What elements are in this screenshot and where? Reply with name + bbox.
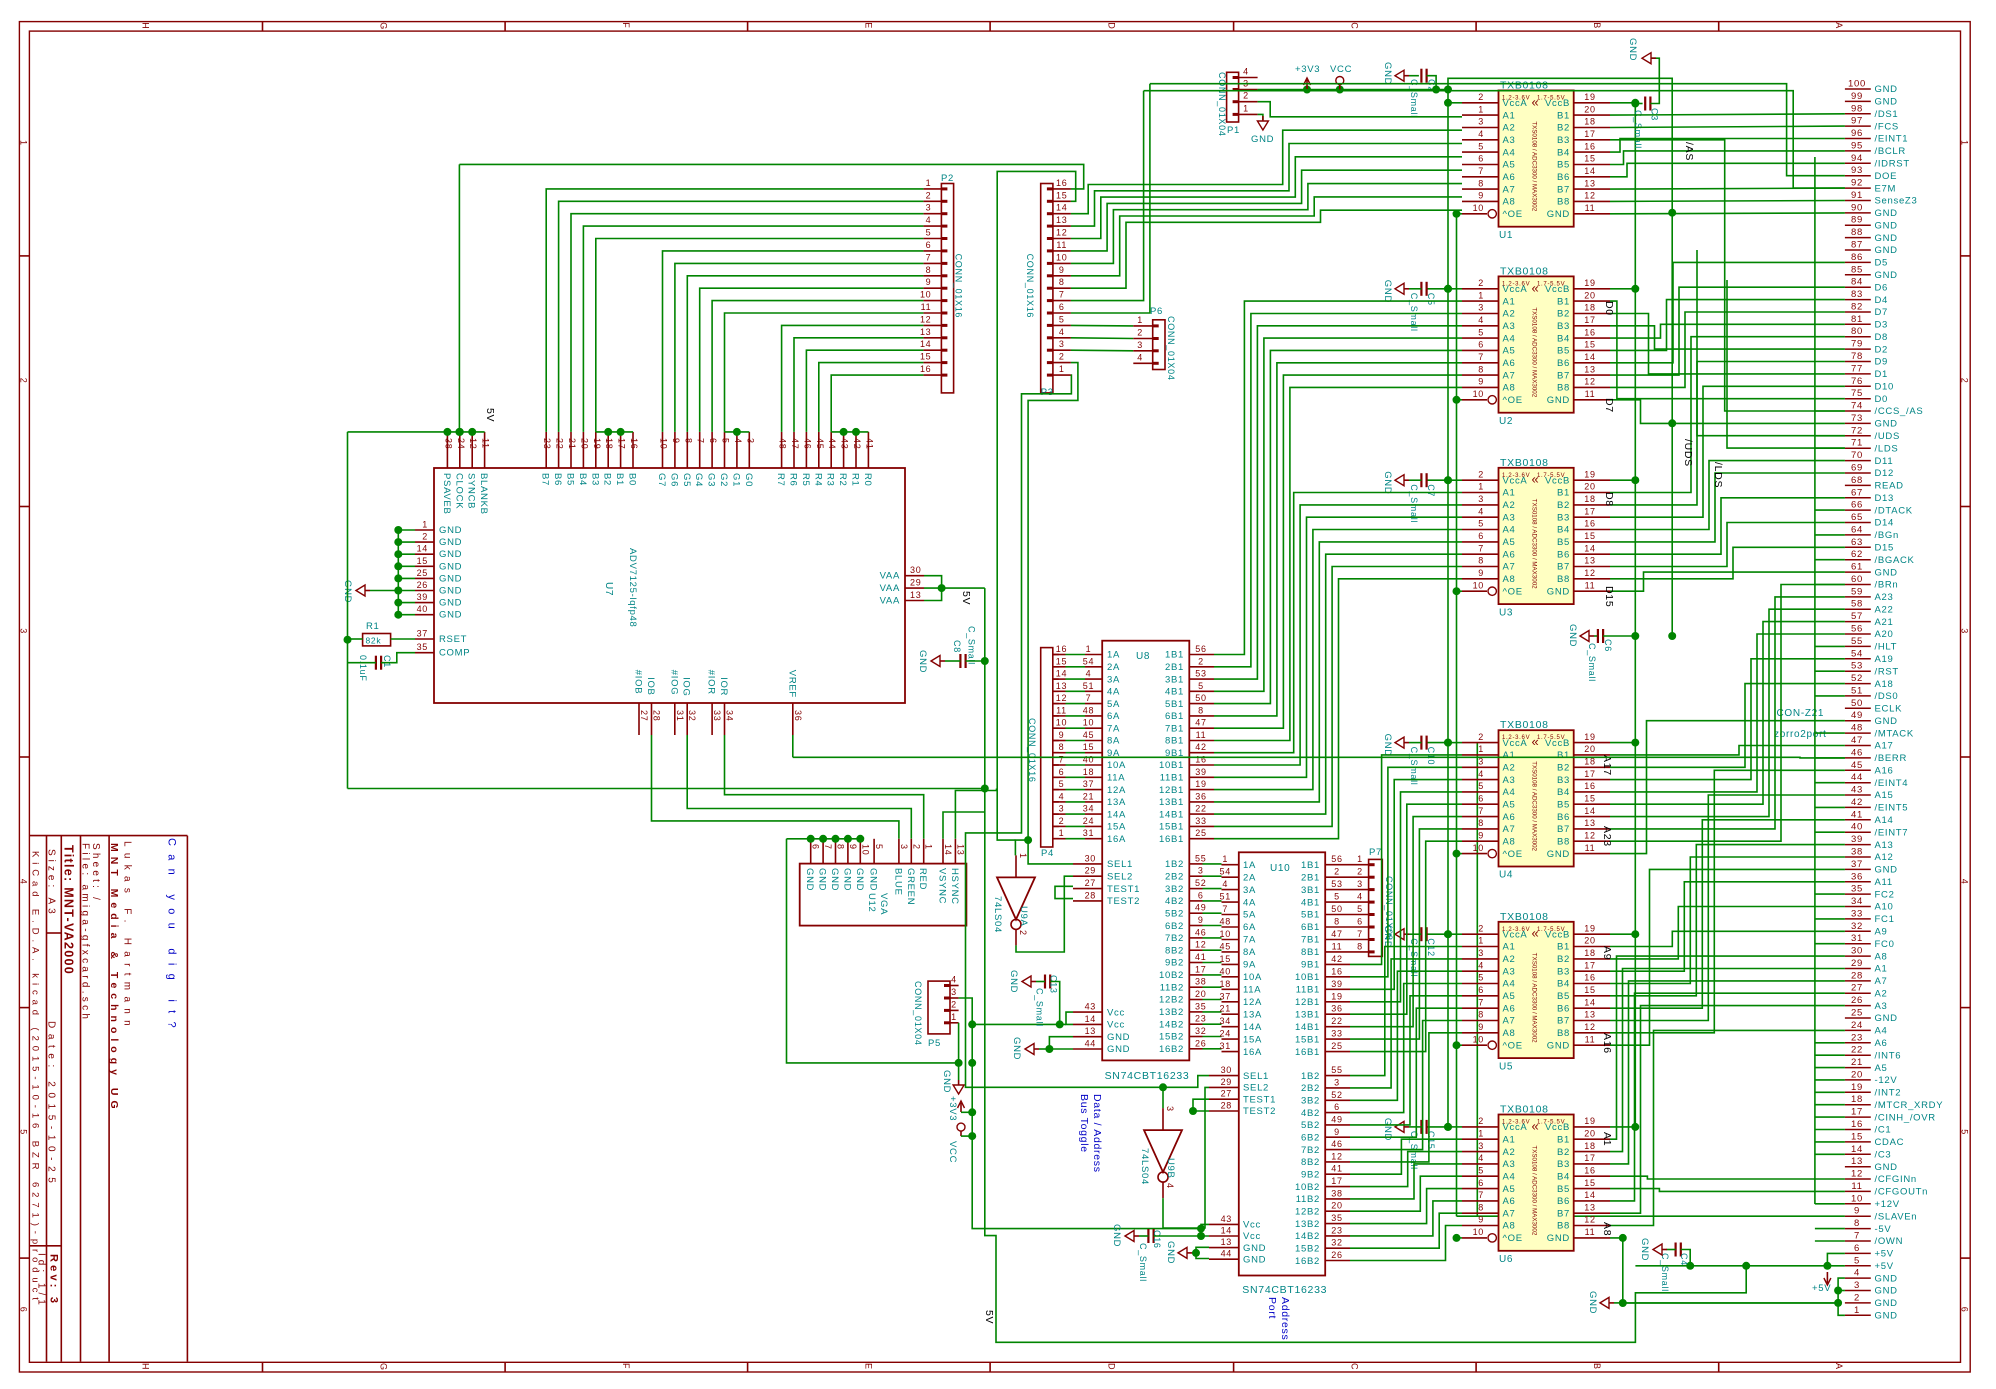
svg-text:3: 3 [1334, 1077, 1340, 1087]
svg-text:GND: GND [1875, 1311, 1898, 1322]
P5 pin 2 [944, 999, 959, 1010]
svg-text:G5: G5 [681, 473, 692, 487]
svg-text:VccA: VccA [1503, 284, 1528, 295]
svg-text:35: 35 [1195, 1001, 1206, 1011]
svg-text:80: 80 [1851, 326, 1863, 337]
U7 pin 40 GND [415, 604, 462, 621]
U5 pin 13 B7 [1557, 1010, 1610, 1027]
svg-text:+3V3: +3V3 [947, 1096, 958, 1121]
U7 pin 29 VAA [880, 578, 924, 595]
svg-text:27: 27 [639, 710, 649, 721]
U7 pin 26 GND [415, 580, 462, 597]
svg-text:11B1: 11B1 [1160, 773, 1184, 784]
wire U7 G2-G0 bridge [725, 428, 750, 436]
label A8 [1601, 1222, 1613, 1236]
svg-text:/IDRST: /IDRST [1875, 159, 1910, 170]
svg-text:A2: A2 [1503, 1147, 1516, 1158]
wire U1 B2 to zorro 97 [1610, 126, 1845, 127]
U1 pin 6 A5 [1462, 154, 1516, 171]
U8 pin 19 12B1 [1159, 779, 1214, 796]
wire P2 pin 1 [546, 189, 923, 432]
svg-text:A11: A11 [1875, 877, 1893, 888]
svg-text:4A: 4A [1243, 897, 1256, 908]
svg-text:^OE: ^OE [1503, 1040, 1523, 1051]
ground GND left of U7 [342, 580, 370, 603]
U10 pin 49 5B2 [1301, 1114, 1350, 1131]
wire P2 pin 11 [725, 313, 924, 432]
IC U7 ADV7125 [434, 468, 905, 703]
U5 pin 18 B2 [1557, 948, 1610, 965]
svg-text:10: 10 [920, 290, 931, 300]
U10 pin 37 12A [1219, 991, 1262, 1008]
svg-text:3: 3 [1960, 628, 1970, 634]
wire E7M long to zorro 92 [1144, 91, 1845, 188]
svg-text:13A: 13A [1107, 797, 1126, 808]
U2 pin 4 A3 [1462, 315, 1516, 332]
svg-text:8: 8 [1478, 1010, 1484, 1020]
U2 pin 14 B6 [1557, 352, 1610, 369]
svg-text:D2: D2 [1875, 344, 1889, 355]
wire U9B output [1163, 1087, 1209, 1228]
U1 pin 3 A2 [1462, 117, 1516, 134]
wire U6 B4 to zorro 12 /CFGINn [1610, 1176, 1845, 1179]
wire U10 15B2 to U6 A7 [1350, 1213, 1462, 1248]
connector P6 CONN_01X04 [1150, 306, 1176, 381]
U3 pin 15 B5 [1557, 531, 1610, 548]
P1 pin 2 [1233, 91, 1258, 102]
U8 pin 44 GND [1073, 1039, 1130, 1056]
wire U4 B3 to zorro 54 A19 [1610, 659, 1845, 780]
svg-text:D4: D4 [1875, 295, 1889, 306]
U4 pin 9 A8 [1462, 830, 1516, 847]
svg-text:VREF: VREF [786, 670, 797, 698]
U2 pin 15 B5 [1557, 340, 1610, 357]
U8 pin 31 16A [1053, 828, 1126, 845]
svg-text:CDAC: CDAC [1875, 1137, 1905, 1148]
wire P3 pin 9 to U1 [1071, 197, 1462, 276]
svg-text:12A: 12A [1107, 785, 1126, 796]
U8 pin 14 Vcc [1073, 1014, 1125, 1031]
svg-text:20: 20 [1195, 989, 1206, 999]
wire U3 B3 to zorro 76 D10 [1610, 386, 1845, 517]
svg-text:59: 59 [1851, 586, 1863, 597]
wire U10 5B2 to U5 A5 [1350, 996, 1462, 1125]
svg-text:55: 55 [1331, 1065, 1342, 1075]
IC U6 TXB0108 [1499, 1104, 1574, 1266]
svg-text:CONN_01X04: CONN_01X04 [1166, 316, 1176, 381]
svg-text:/BGn: /BGn [1875, 530, 1899, 541]
svg-text:Date: 2015-10-25: Date: 2015-10-25 [46, 1021, 57, 1188]
U3 pin 1 A1 [1462, 482, 1516, 499]
svg-text:7: 7 [926, 252, 932, 262]
svg-text:45: 45 [1083, 730, 1094, 740]
svg-text:14B1: 14B1 [1159, 809, 1184, 820]
svg-text:A16: A16 [1875, 766, 1894, 777]
U8 pin 42 9B1 [1165, 742, 1214, 759]
svg-text:11: 11 [1585, 843, 1596, 853]
U8 pin 4 3A [1053, 669, 1120, 686]
svg-text:8: 8 [1334, 917, 1340, 927]
U8 pin 51 4A [1053, 681, 1120, 698]
svg-text:FC0: FC0 [1875, 939, 1895, 950]
svg-text:43: 43 [1851, 785, 1863, 796]
svg-text:/CCS_/AS: /CCS_/AS [1875, 406, 1924, 417]
svg-text:C8: C8 [952, 640, 962, 653]
wire U10 13B2 to U6 A5 [1350, 1189, 1462, 1224]
svg-text:16: 16 [1851, 1119, 1863, 1130]
capacitor C1 0.1uF [358, 655, 392, 682]
U7 pin 10 G7 [656, 432, 669, 487]
svg-text:B3: B3 [1557, 1159, 1570, 1170]
connector CON-Z21 zorro2port [1774, 79, 1943, 1322]
svg-text:Vcc: Vcc [1243, 1231, 1261, 1242]
svg-text:ADV7125-lqfp48: ADV7125-lqfp48 [627, 548, 638, 628]
svg-text:39: 39 [1331, 979, 1342, 989]
U8 pin 53 3B1 [1165, 669, 1214, 686]
svg-text:/DS1: /DS1 [1875, 109, 1899, 120]
U8 pin 24 15A [1053, 816, 1126, 833]
wire P3 pin7 E7M [1071, 91, 1144, 301]
svg-text:13: 13 [910, 590, 921, 600]
wire P2 pin 2 [559, 201, 924, 432]
svg-text:72: 72 [1851, 425, 1863, 436]
svg-text:3: 3 [1478, 494, 1484, 504]
wire U2 B5 to zorro 83 D4 [1610, 300, 1845, 351]
svg-text:TEST2: TEST2 [1243, 1106, 1276, 1117]
U2 pin 19 VccB [1545, 278, 1610, 295]
wire U2 B1 to zorro 75 D0 [1610, 301, 1845, 399]
svg-text:GND: GND [439, 586, 462, 597]
U3 pin 12 B8 [1557, 568, 1610, 585]
svg-text:VccA: VccA [1503, 1122, 1528, 1133]
wire U6 B8 to zorro 24 A4 [1610, 1030, 1845, 1225]
U7 pin 24 CLOCK [453, 432, 466, 509]
svg-text:B1: B1 [614, 473, 625, 486]
wire U5 GND11 to zorro 37 [1610, 869, 1845, 1045]
svg-text:A15: A15 [1875, 790, 1894, 801]
svg-text:4: 4 [1059, 791, 1065, 801]
svg-text:7: 7 [1478, 1190, 1484, 1200]
svg-text:RED: RED [917, 868, 928, 890]
svg-text:8: 8 [683, 438, 693, 444]
svg-text:16: 16 [1331, 966, 1342, 976]
svg-text:GND: GND [1111, 1224, 1122, 1247]
svg-text:A5: A5 [1503, 160, 1516, 171]
svg-text:/UDS: /UDS [1682, 439, 1694, 467]
svg-text:GND: GND [1875, 1162, 1898, 1173]
svg-text:R3: R3 [825, 473, 836, 487]
svg-text:27: 27 [1085, 878, 1096, 888]
svg-text:7: 7 [1854, 1231, 1860, 1242]
svg-text:CLOCK: CLOCK [453, 473, 464, 509]
svg-text:1B2: 1B2 [1165, 859, 1184, 870]
svg-text:1: 1 [1059, 364, 1065, 374]
svg-text:5: 5 [1059, 314, 1065, 324]
wire P3 pin15 toggle net [997, 171, 1075, 840]
svg-text:P7: P7 [1369, 847, 1382, 858]
svg-text:34: 34 [1851, 896, 1863, 907]
svg-text:2B1: 2B1 [1301, 872, 1320, 883]
svg-text:D3: D3 [1875, 320, 1889, 331]
svg-text:30: 30 [1221, 1065, 1232, 1075]
svg-text:15B2: 15B2 [1159, 1032, 1184, 1043]
svg-text:18: 18 [1584, 117, 1595, 127]
svg-text:93: 93 [1851, 165, 1863, 176]
svg-text:17: 17 [617, 438, 627, 449]
svg-text:38: 38 [443, 438, 453, 449]
svg-text:1B2: 1B2 [1301, 1071, 1320, 1082]
U10 pin 36 13B1 [1295, 1004, 1350, 1021]
U7 pin 33 #IOR [706, 670, 723, 735]
svg-text:10: 10 [1473, 203, 1484, 213]
wire U2 B6 to zorro 86 D5 [1610, 262, 1845, 362]
svg-text:4: 4 [1137, 352, 1143, 362]
svg-text:33: 33 [1331, 1029, 1342, 1039]
wire U8 11B1 to U3 A3 [1214, 517, 1462, 777]
svg-text:28: 28 [1085, 890, 1096, 900]
svg-text:10B2: 10B2 [1159, 970, 1184, 981]
svg-text:G2: G2 [718, 473, 729, 487]
U10 pin 40 10A [1219, 966, 1262, 983]
svg-text:17: 17 [1584, 1153, 1595, 1163]
svg-text:C_Small: C_Small [1138, 1243, 1148, 1282]
wire P2 pin 5 [596, 239, 924, 432]
capacitor C12 C_Small [1382, 925, 1452, 977]
svg-text:41: 41 [864, 438, 874, 449]
wire U8 6B1 to U2 A6 [1214, 363, 1462, 716]
wire U4 B4 to zorro 56 A20 [1610, 634, 1845, 792]
wire U5 B4 to zorro 38 A12 [1610, 857, 1845, 984]
svg-text:GND: GND [1547, 1040, 1570, 1051]
U5 pin 2 VccA [1462, 923, 1527, 940]
U10 pin 23 14B2 [1295, 1225, 1350, 1242]
svg-text:48: 48 [1219, 917, 1230, 927]
svg-text:58: 58 [1851, 599, 1863, 610]
svg-text:TXS0108 / ADC3300 / MAX3002: TXS0108 / ADC3300 / MAX3002 [1531, 121, 1538, 211]
svg-text:READ: READ [1875, 481, 1904, 492]
svg-text:GND: GND [1875, 865, 1898, 876]
wire U1 B6 to zorro 94 [1610, 163, 1845, 177]
svg-text:7: 7 [823, 844, 833, 850]
svg-text:B4: B4 [1557, 525, 1570, 536]
label A23 [1601, 826, 1613, 847]
svg-text:A1: A1 [1875, 964, 1888, 975]
svg-text:D6: D6 [1875, 282, 1889, 293]
svg-text:19: 19 [1584, 923, 1595, 933]
svg-text:A2: A2 [1875, 988, 1888, 999]
svg-text:/MTCR_XRDY: /MTCR_XRDY [1875, 1100, 1944, 1111]
wire P2 pin 16 [831, 375, 923, 432]
svg-text:D12: D12 [1875, 468, 1895, 479]
svg-text:A7: A7 [1503, 184, 1516, 195]
U10 pin 9 6B2 [1301, 1127, 1350, 1144]
svg-text:43: 43 [1221, 1214, 1232, 1224]
svg-text:11A: 11A [1107, 773, 1125, 784]
U6 pin 12 B8 [1557, 1215, 1610, 1232]
svg-text:GND: GND [868, 868, 879, 891]
svg-text:A7: A7 [1503, 824, 1516, 835]
ground GND C16 left [1111, 1224, 1139, 1247]
svg-text:GREEN: GREEN [905, 868, 916, 905]
wire U8 8B1 to U2 A8 [1214, 387, 1462, 740]
svg-text:13B2: 13B2 [1295, 1219, 1320, 1230]
svg-text:54: 54 [1083, 656, 1094, 666]
svg-text:15: 15 [1056, 190, 1067, 200]
svg-text:1: 1 [1357, 854, 1363, 864]
wire P3 pin 10 to U1 [1071, 184, 1462, 264]
svg-text:5: 5 [1478, 1165, 1484, 1175]
svg-text:A3: A3 [1875, 1001, 1888, 1012]
svg-text:D0: D0 [1603, 301, 1615, 316]
svg-text:12A: 12A [1243, 997, 1262, 1008]
svg-text:G1: G1 [730, 473, 741, 487]
svg-text:20: 20 [1331, 1201, 1342, 1211]
U10 pin 46 7B2 [1301, 1139, 1350, 1156]
U4 pin 15 B5 [1557, 794, 1610, 811]
svg-text:1: 1 [951, 1012, 957, 1022]
svg-text:4B2: 4B2 [1301, 1108, 1320, 1119]
svg-text:6B2: 6B2 [1165, 921, 1184, 932]
svg-text:GND: GND [1875, 1286, 1898, 1297]
svg-text:19: 19 [1584, 92, 1595, 102]
svg-text:13: 13 [1085, 1026, 1096, 1036]
wire U8 Vcc bracket [968, 1012, 1073, 1028]
svg-text:10A: 10A [1243, 972, 1262, 983]
label A9 [1601, 946, 1613, 960]
svg-text:B3: B3 [1557, 512, 1570, 523]
svg-text:39: 39 [1851, 834, 1863, 845]
svg-text:/C3: /C3 [1875, 1150, 1892, 1161]
wire U10 16B1 to U4 A8 [1350, 841, 1462, 1051]
svg-text:24: 24 [1083, 816, 1094, 826]
svg-text:VCC: VCC [1330, 64, 1352, 75]
svg-text:44: 44 [1221, 1249, 1232, 1259]
P6 pin 3 [1133, 340, 1158, 351]
svg-text:6B2: 6B2 [1301, 1133, 1320, 1144]
U10 pin 51 4A [1219, 892, 1256, 909]
svg-text:C_Small: C_Small [1035, 988, 1045, 1027]
svg-text:48: 48 [1083, 705, 1094, 715]
U8 pin 30 SEL1 [1073, 853, 1133, 870]
wire P2 pin 12 [782, 325, 924, 432]
svg-text:20: 20 [1851, 1069, 1863, 1080]
svg-text:10B1: 10B1 [1159, 760, 1184, 771]
svg-text:16A: 16A [1243, 1047, 1262, 1058]
wire P2 pin 14 [806, 350, 923, 432]
wire U9A input net [1015, 840, 1028, 855]
svg-text:14: 14 [1584, 543, 1595, 553]
svg-text:99: 99 [1851, 91, 1863, 102]
svg-text:11: 11 [1585, 203, 1596, 213]
svg-text:3: 3 [951, 987, 957, 997]
svg-text:C_Small: C_Small [967, 626, 977, 665]
svg-text:15B1: 15B1 [1295, 1034, 1320, 1045]
svg-text:6B1: 6B1 [1301, 922, 1320, 933]
svg-text:4B1: 4B1 [1165, 687, 1184, 698]
svg-text:2: 2 [1478, 92, 1484, 102]
U4 pin 1 A1 [1462, 744, 1516, 761]
svg-text:12: 12 [1584, 1215, 1595, 1225]
svg-text:VAA: VAA [880, 583, 900, 594]
svg-text:B3: B3 [1557, 135, 1570, 146]
svg-text:39: 39 [417, 592, 428, 602]
svg-text:4: 4 [1243, 67, 1249, 77]
U10 pin 21 13A [1219, 1004, 1262, 1021]
svg-text:47: 47 [1195, 718, 1206, 728]
U8 pin 49 5B2 [1165, 903, 1222, 920]
svg-text:VAA: VAA [880, 596, 900, 607]
wire U8 GND bracket [1045, 1037, 1073, 1053]
svg-text:22: 22 [1331, 1016, 1342, 1026]
U7 pin 7 G4 [693, 432, 706, 487]
U4 pin 19 VccB [1545, 732, 1610, 749]
U1 pin 16 B4 [1557, 141, 1610, 158]
svg-text:VccB: VccB [1545, 1122, 1570, 1133]
svg-text:8: 8 [1357, 941, 1363, 951]
svg-text:A2: A2 [1503, 954, 1516, 965]
U8 pin 43 Vcc [1073, 1002, 1125, 1019]
svg-text:-12V: -12V [1875, 1075, 1898, 1086]
U1 pin 13 B7 [1557, 178, 1610, 195]
U10 pin 15 9A [1219, 954, 1256, 971]
svg-text:2: 2 [911, 844, 921, 850]
svg-text:29: 29 [1851, 958, 1863, 969]
svg-text:5: 5 [1478, 141, 1484, 151]
U10 pin 35 13B2 [1295, 1213, 1350, 1230]
svg-text:A5: A5 [1875, 1063, 1888, 1074]
svg-text:GND: GND [817, 868, 828, 891]
svg-text:A6: A6 [1503, 1003, 1516, 1014]
svg-text:46: 46 [802, 438, 812, 449]
svg-text:10: 10 [1473, 1227, 1484, 1237]
wire U5 B8 to zorro 45 A16 [1610, 770, 1845, 1033]
U1 pin 15 B5 [1557, 154, 1610, 171]
power VCC top [1330, 64, 1352, 90]
svg-text:Title: MNT-VA2000: Title: MNT-VA2000 [62, 845, 76, 975]
wire U9B input [1162, 1087, 1164, 1108]
wire U8 3B1 to U2 A3 [1214, 326, 1462, 679]
svg-text:PSAVEB: PSAVEB [441, 473, 452, 515]
svg-text:B6: B6 [1557, 812, 1570, 823]
svg-text:A3: A3 [1503, 135, 1516, 146]
svg-text:B3: B3 [1557, 966, 1570, 977]
wire U7 GND chain [370, 526, 415, 619]
svg-text:A8: A8 [1503, 574, 1516, 585]
svg-text:28: 28 [652, 710, 662, 721]
svg-text:1: 1 [1137, 315, 1143, 325]
U8 pin 25 16B1 [1159, 828, 1214, 845]
svg-text:5: 5 [874, 844, 884, 850]
svg-text:VSYNC: VSYNC [937, 868, 948, 904]
svg-text:ECLK: ECLK [1875, 704, 1903, 715]
svg-text:6A: 6A [1107, 711, 1120, 722]
svg-text:26: 26 [1851, 995, 1863, 1006]
svg-text:14: 14 [1085, 1014, 1096, 1024]
svg-text:VccB: VccB [1545, 929, 1570, 940]
svg-text:Sheet: /: Sheet: / [90, 843, 101, 903]
svg-text:A: A [1834, 22, 1844, 29]
svg-text:3: 3 [1478, 948, 1484, 958]
svg-text:B4: B4 [577, 473, 588, 486]
connector P4 CONN_01X16 [1027, 644, 1067, 859]
svg-text:C_Small: C_Small [1633, 110, 1643, 149]
U6 pin 2 VccA [1462, 1116, 1527, 1133]
svg-text:GND: GND [1875, 84, 1898, 95]
U7 pin 11 BLANKB [478, 432, 491, 515]
U2 pin 1 A1 [1462, 290, 1516, 307]
svg-text:12: 12 [1056, 693, 1067, 703]
svg-text:11: 11 [1056, 240, 1067, 250]
